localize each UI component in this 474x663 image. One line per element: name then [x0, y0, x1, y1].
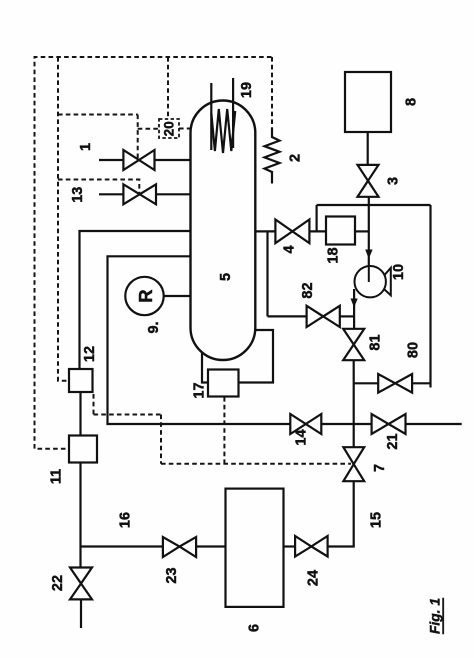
svg-text:19: 19	[239, 82, 255, 98]
svg-text:8: 8	[404, 98, 420, 106]
svg-text:22: 22	[50, 575, 66, 591]
svg-text:Fig. 1: Fig. 1	[428, 598, 443, 634]
svg-text:20: 20	[162, 121, 177, 136]
svg-text:5: 5	[218, 273, 234, 281]
svg-text:12: 12	[82, 346, 98, 362]
svg-text:80: 80	[406, 342, 422, 358]
svg-text:14: 14	[294, 429, 310, 445]
svg-text:15: 15	[369, 512, 385, 528]
svg-text:9.: 9.	[146, 321, 162, 333]
svg-text:17: 17	[192, 382, 208, 398]
svg-text:7: 7	[372, 464, 388, 472]
svg-text:82: 82	[300, 282, 316, 298]
svg-text:16: 16	[117, 512, 133, 528]
svg-text:18: 18	[326, 247, 342, 263]
svg-text:11: 11	[49, 469, 65, 484]
svg-text:10: 10	[391, 264, 407, 280]
svg-text:6: 6	[247, 624, 263, 632]
svg-text:4: 4	[282, 245, 298, 253]
svg-text:R: R	[135, 289, 156, 302]
svg-text:21: 21	[385, 433, 401, 449]
svg-text:1: 1	[78, 143, 94, 151]
svg-text:2: 2	[288, 154, 304, 162]
svg-text:23: 23	[164, 567, 180, 583]
svg-text:13: 13	[70, 187, 86, 203]
svg-text:81: 81	[368, 334, 384, 350]
svg-text:24: 24	[306, 570, 322, 586]
svg-text:3: 3	[386, 177, 402, 185]
